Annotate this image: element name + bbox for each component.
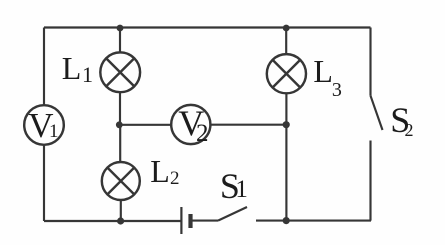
wire middle left [119, 124, 171, 126]
junction middle L3 [283, 121, 290, 128]
voltmeter V1 [24, 105, 64, 145]
wire battery to switch [193, 220, 219, 222]
wire right lower [369, 141, 371, 221]
wire L3 top [285, 28, 287, 55]
lamp L3 [267, 54, 306, 93]
label S1 [220, 168, 240, 204]
label V1 [28, 108, 53, 143]
wire bottom left [44, 220, 181, 222]
junction bottom L3 [283, 217, 290, 224]
lamp L1 [100, 52, 140, 92]
wire L3 bottom [285, 93, 287, 220]
battery B1 [180, 207, 182, 234]
label L3 [313, 55, 333, 87]
switch S1 [218, 207, 247, 221]
switch S2 [371, 96, 383, 130]
junction middle L1/L2 [116, 121, 123, 128]
wire L2 top [119, 125, 121, 162]
wire left lower [43, 145, 45, 221]
wire left [43, 28, 45, 106]
label S2 [390, 102, 410, 138]
label L1 [62, 52, 82, 84]
label L2 [150, 155, 170, 187]
wire L1 bottom [119, 92, 121, 125]
junction top L1 [117, 25, 124, 32]
wire middle right [210, 124, 286, 126]
lamp L2 [102, 162, 140, 200]
wire switch right [256, 220, 371, 222]
wire right upper [369, 28, 371, 96]
wire top [44, 26, 371, 28]
voltmeter V2 [171, 105, 210, 144]
label V2 [178, 105, 204, 141]
wire L2 bottom [120, 200, 122, 221]
wire L1 top [119, 28, 121, 53]
junction top L3 [283, 25, 290, 32]
junction bottom L2 [117, 217, 124, 224]
